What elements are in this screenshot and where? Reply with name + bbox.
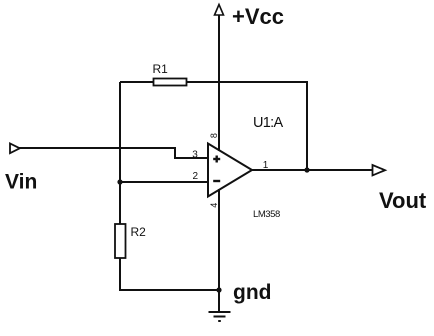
svg-text:R2: R2 bbox=[131, 225, 147, 239]
svg-text:4: 4 bbox=[209, 203, 219, 208]
svg-text:1: 1 bbox=[263, 160, 269, 171]
svg-text:U1:A: U1:A bbox=[253, 115, 283, 131]
svg-text:Vin: Vin bbox=[5, 171, 37, 194]
svg-text:LM358: LM358 bbox=[253, 209, 280, 220]
svg-text:3: 3 bbox=[192, 149, 198, 160]
svg-text:+Vcc: +Vcc bbox=[232, 4, 284, 29]
svg-text:2: 2 bbox=[193, 171, 199, 182]
svg-text:8: 8 bbox=[209, 133, 219, 138]
svg-text:gnd: gnd bbox=[233, 281, 271, 304]
svg-text:R1: R1 bbox=[153, 62, 169, 76]
svg-text:Vout: Vout bbox=[379, 188, 427, 213]
